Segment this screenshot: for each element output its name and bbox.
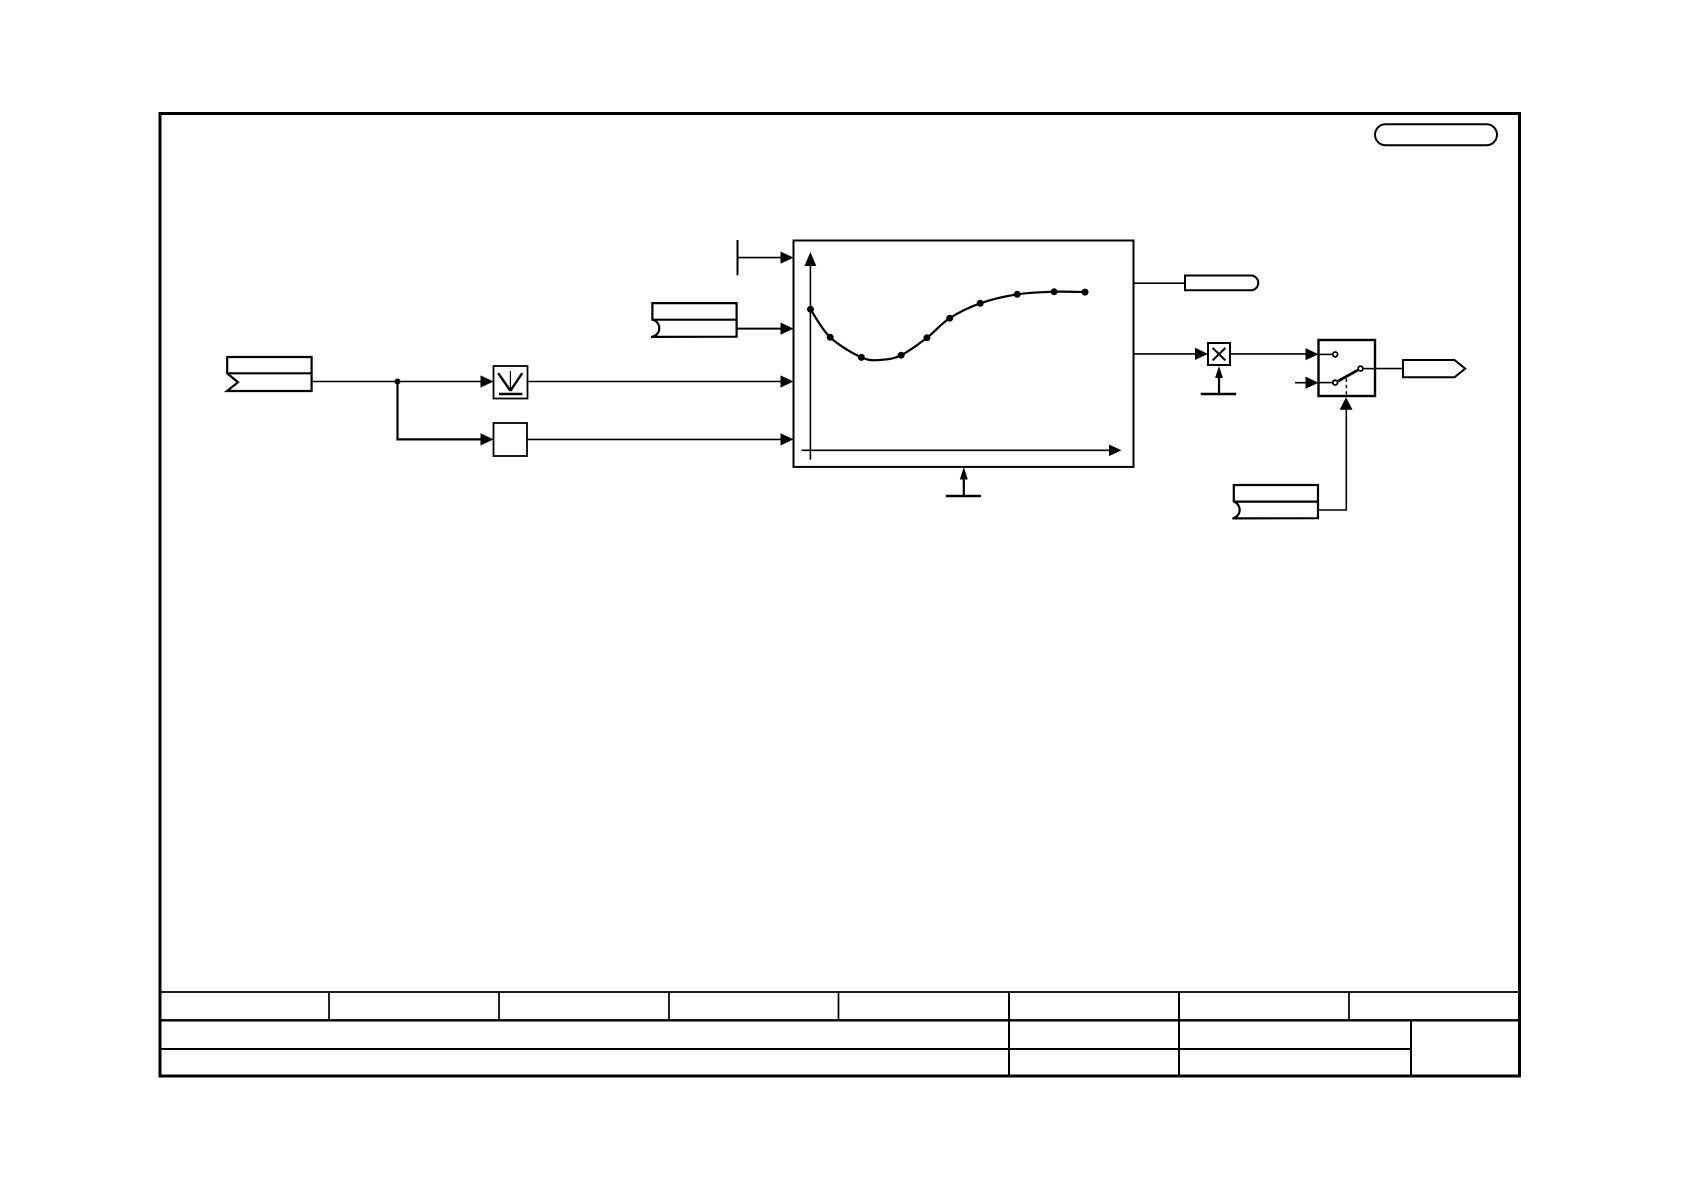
curve point 4 [898,352,905,359]
curve point 1 [807,306,814,313]
connector output pentagon [1403,360,1465,377]
wire junction to limiter [398,381,482,383]
output half stadium [1185,276,1258,291]
title block divider v5 full height [1008,992,1010,1076]
curve point 10 [1082,289,1089,296]
fixed input arrow below characteristic box [946,467,981,496]
junction node [395,379,401,385]
y axis arrowhead [805,252,817,266]
multiplier box [1208,343,1230,365]
title block revision row top line [160,991,1520,993]
wire parameter p2 up to switch [1318,409,1346,510]
x axis [802,449,1110,451]
function diagram label stadium top right [1375,124,1497,145]
parameter banner p2 [1232,485,1318,518]
title block middle line [160,1048,1411,1050]
x axis arrowhead [1109,445,1122,457]
title block main top line [160,1019,1520,1021]
connector input banner [227,357,312,391]
stub wire switch input 2 [1295,382,1307,384]
title block divider v3 [668,992,670,1020]
arrowhead into scaling box [481,433,494,445]
arrowhead switch input 2 [1306,377,1319,389]
limiter box [494,366,528,399]
curve point 6 [946,315,953,322]
characteristic curve [811,292,1086,361]
title block divider v7 [1348,992,1350,1020]
wire multiplier to switch [1230,353,1307,355]
parameter banner p1 [651,303,737,337]
arrowhead input 2 [781,323,794,335]
curve point 8 [1014,291,1021,298]
arrowhead input 1 [781,252,794,264]
title block divider v1 [328,992,330,1020]
curve point 9 [1051,288,1058,295]
arrowhead input 4 [781,433,794,445]
fixed value tick input [737,240,739,275]
changeover switch box [1319,340,1376,396]
curve point 7 [977,300,984,307]
curve point 2 [827,334,834,341]
wire switch to output connector [1375,368,1403,370]
page frame [160,114,1520,1077]
title block divider v8 lower [1410,1020,1412,1076]
title block divider v6 full height [1178,992,1180,1076]
arrowhead into multiplier [1195,348,1208,360]
y axis [809,264,811,460]
wire limiter to characteristic box [528,381,782,383]
title block divider v2 [498,992,500,1020]
fixed input arrow below multiplier [1201,366,1236,394]
wire characteristic box to output stadium [1134,282,1186,284]
wire tick to characteristic box [738,257,782,259]
curve point 5 [923,334,930,341]
wire scaling box to characteristic box [527,438,782,440]
wire characteristic box to multiplier [1134,353,1197,355]
wire from connector input to junction [312,381,398,383]
friction characteristic box [794,241,1134,467]
wire parameter p1 to characteristic box [737,328,782,330]
curve point 3 [858,354,865,361]
title block divider v4 [838,992,840,1020]
switch select arrowhead from below [1340,397,1353,410]
arrowhead switch input 1 [1306,348,1319,360]
wire junction down and right to scaling box [398,382,482,440]
arrowhead into limiter [481,375,494,387]
scaling box [494,423,528,456]
arrowhead input 3 [781,375,794,387]
